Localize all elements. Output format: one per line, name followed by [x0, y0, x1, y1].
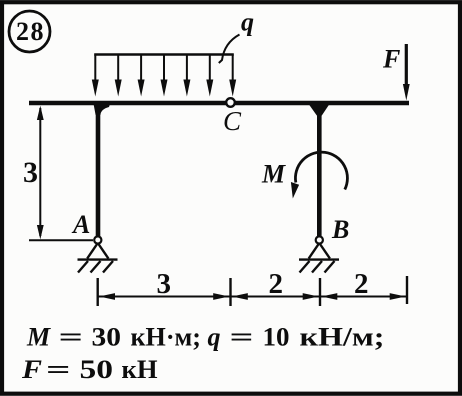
dimension extension ticks at A, C, B, beam end: [98, 276, 407, 306]
dimension arrowheads: [99, 293, 406, 300]
bottom dimension line: [98, 296, 407, 298]
hinge C: [226, 98, 235, 107]
moment M arc arrowhead: [291, 182, 299, 199]
support A: [78, 243, 118, 273]
svg-text:F=50кН: F=50кН: [21, 355, 158, 384]
gusset at A: [93, 101, 111, 115]
svg-text:2: 2: [269, 268, 284, 300]
force F arrowhead: [403, 84, 410, 101]
svg-text:B: B: [331, 215, 349, 244]
svg-text:3: 3: [157, 268, 172, 300]
svg-text:C: C: [223, 106, 242, 136]
distributed load arrowheads: [92, 80, 236, 97]
force F arrow: [405, 44, 408, 86]
support B: [299, 243, 339, 273]
column B: [317, 103, 322, 239]
moment M arc: [295, 152, 347, 189]
support A pin circle: [94, 236, 101, 243]
svg-text:3: 3: [23, 156, 38, 189]
distributed load arrows: [95, 55, 232, 83]
svg-text:A: A: [71, 210, 90, 239]
gusset at B: [307, 101, 332, 116]
support B pin circle: [316, 236, 323, 243]
vertical dimension 3: [39, 108, 41, 236]
vertical dimension 3 top arrowhead: [37, 106, 44, 120]
beam: [29, 101, 409, 106]
problem number circle 28: [9, 11, 50, 52]
svg-text:q: q: [241, 8, 254, 37]
svg-text:2: 2: [354, 268, 369, 300]
tick under A for dim 3: [29, 239, 93, 241]
distributed load q top line: [94, 53, 234, 56]
vertical dimension 3 bottom arrowhead: [37, 225, 44, 239]
column A: [96, 103, 101, 239]
svg-text:M: M: [261, 160, 286, 189]
svg-text:F: F: [382, 45, 400, 74]
svg-text:28: 28: [16, 17, 45, 46]
